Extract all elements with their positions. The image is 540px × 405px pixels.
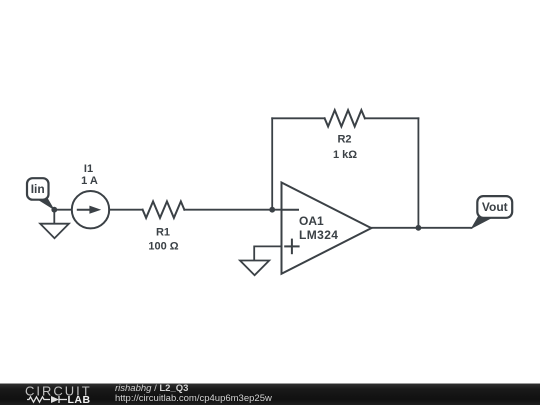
label OA1 / LM324 bbox=[299, 214, 338, 242]
svg-text:R1: R1 bbox=[156, 227, 170, 239]
wire: feedback right riser bbox=[417, 118, 419, 228]
label R1 / 100 Ω bbox=[148, 227, 178, 253]
svg-text:LM324: LM324 bbox=[299, 228, 338, 242]
CircuitLab logo bbox=[0, 383, 100, 405]
ground symbol GND2 bbox=[240, 261, 269, 276]
svg-text:1 kΩ: 1 kΩ bbox=[333, 149, 357, 161]
resistor R2 bbox=[325, 110, 365, 126]
svg-text:Vout: Vout bbox=[482, 200, 508, 214]
net flag Iin bbox=[27, 178, 55, 210]
resistor R1 bbox=[143, 201, 185, 218]
footer bar bbox=[0, 383, 540, 405]
op-amp OA1 bbox=[282, 183, 372, 274]
svg-text:100 Ω: 100 Ω bbox=[148, 241, 178, 253]
current source I1 bbox=[72, 191, 109, 228]
wire: top left to R2 bbox=[272, 117, 324, 119]
wire: op-amp output to Vout bbox=[371, 227, 471, 229]
wire: Iin node to current source bbox=[54, 209, 72, 211]
ground symbol GND1 bbox=[40, 210, 69, 239]
label I1 / 1 A bbox=[81, 163, 98, 187]
node C: output junction bbox=[416, 225, 422, 231]
svg-text:OA1: OA1 bbox=[299, 214, 324, 228]
wire: current source to R1 bbox=[109, 209, 142, 211]
svg-text:R2: R2 bbox=[337, 134, 351, 146]
wire: feedback left riser bbox=[271, 118, 273, 209]
wire: R1 to op-amp inverting input bbox=[184, 209, 281, 211]
wire: R2 to right corner bbox=[365, 117, 419, 119]
node A: input junction at Iin flag bbox=[51, 207, 57, 213]
svg-text:Iin: Iin bbox=[31, 182, 45, 196]
footer caption bbox=[115, 384, 272, 404]
svg-text:LAB: LAB bbox=[68, 394, 91, 405]
net flag Vout bbox=[471, 196, 513, 229]
svg-text:1 A: 1 A bbox=[81, 175, 98, 187]
node B: inverting input junction bbox=[269, 207, 275, 213]
svg-text:I1: I1 bbox=[84, 163, 93, 175]
wire: non-inverting input to ground bbox=[254, 246, 281, 260]
label R2 / 1 kΩ bbox=[333, 134, 357, 162]
